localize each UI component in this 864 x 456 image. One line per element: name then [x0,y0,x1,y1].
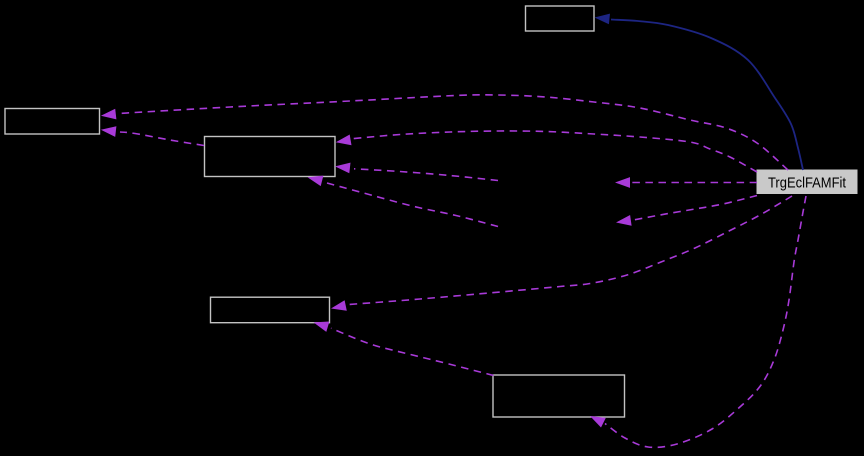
node B4 (mid-low empty box) [211,297,330,323]
arrowhead P6 into B3 bottom corner [308,176,324,187]
purple edge P10 B3 to B2 (short) [120,132,204,146]
blue inheritance edge TrgEclFAMFit to B1 [611,20,803,171]
purple edge P5 TrgEclFAMFit to invisible node 2 [633,196,757,221]
arrowhead P8 into B4 bottom corner [314,322,330,332]
purple edge P1 TrgEclFAMFit to B2 (long top arc) [118,95,788,170]
node B2 (left empty box) [5,109,100,135]
purple edge P9 TrgEclFAMFit to B5 bottom (long right arc) [605,196,806,447]
svg-text:TrgEclFAMFit: TrgEclFAMFit [768,175,846,191]
arrowhead P7 into B4 [331,300,347,311]
purple edge P6 invisible node 2 to B3 bottom corner [327,183,498,227]
node B1 (top empty box) [526,6,595,31]
arrowhead P1 into B2 [101,109,117,120]
arrowhead P10 into B2 [101,126,117,137]
node B5 (bottom two-line empty box) [493,375,625,417]
purple edge P8 B5 to B4 bottom corner [331,328,494,375]
arrowhead P4 into B3 mid [335,163,351,174]
arrowhead P9 into B5 bottom [590,416,606,428]
arrowhead P3 at invisible node 1 [615,177,630,188]
purple edge P2 TrgEclFAMFit to B3 (top arrow) [352,131,757,172]
node B3 (middle two-line empty box) [205,137,336,177]
arrowhead P2 into B3 top [336,135,352,146]
purple edge P7 TrgEclFAMFit to B4 [349,196,792,305]
blue arrowhead into B1 [595,14,611,25]
purple edge P4 invisible node 1 to B3 (mid arrow) [354,169,498,181]
node TrgEclFAMFit (main node) [757,170,857,194]
purple edge P3 TrgEclFAMFit to invisible node 1 [631,182,757,184]
arrowhead P5 at invisible node 2 [616,215,632,226]
